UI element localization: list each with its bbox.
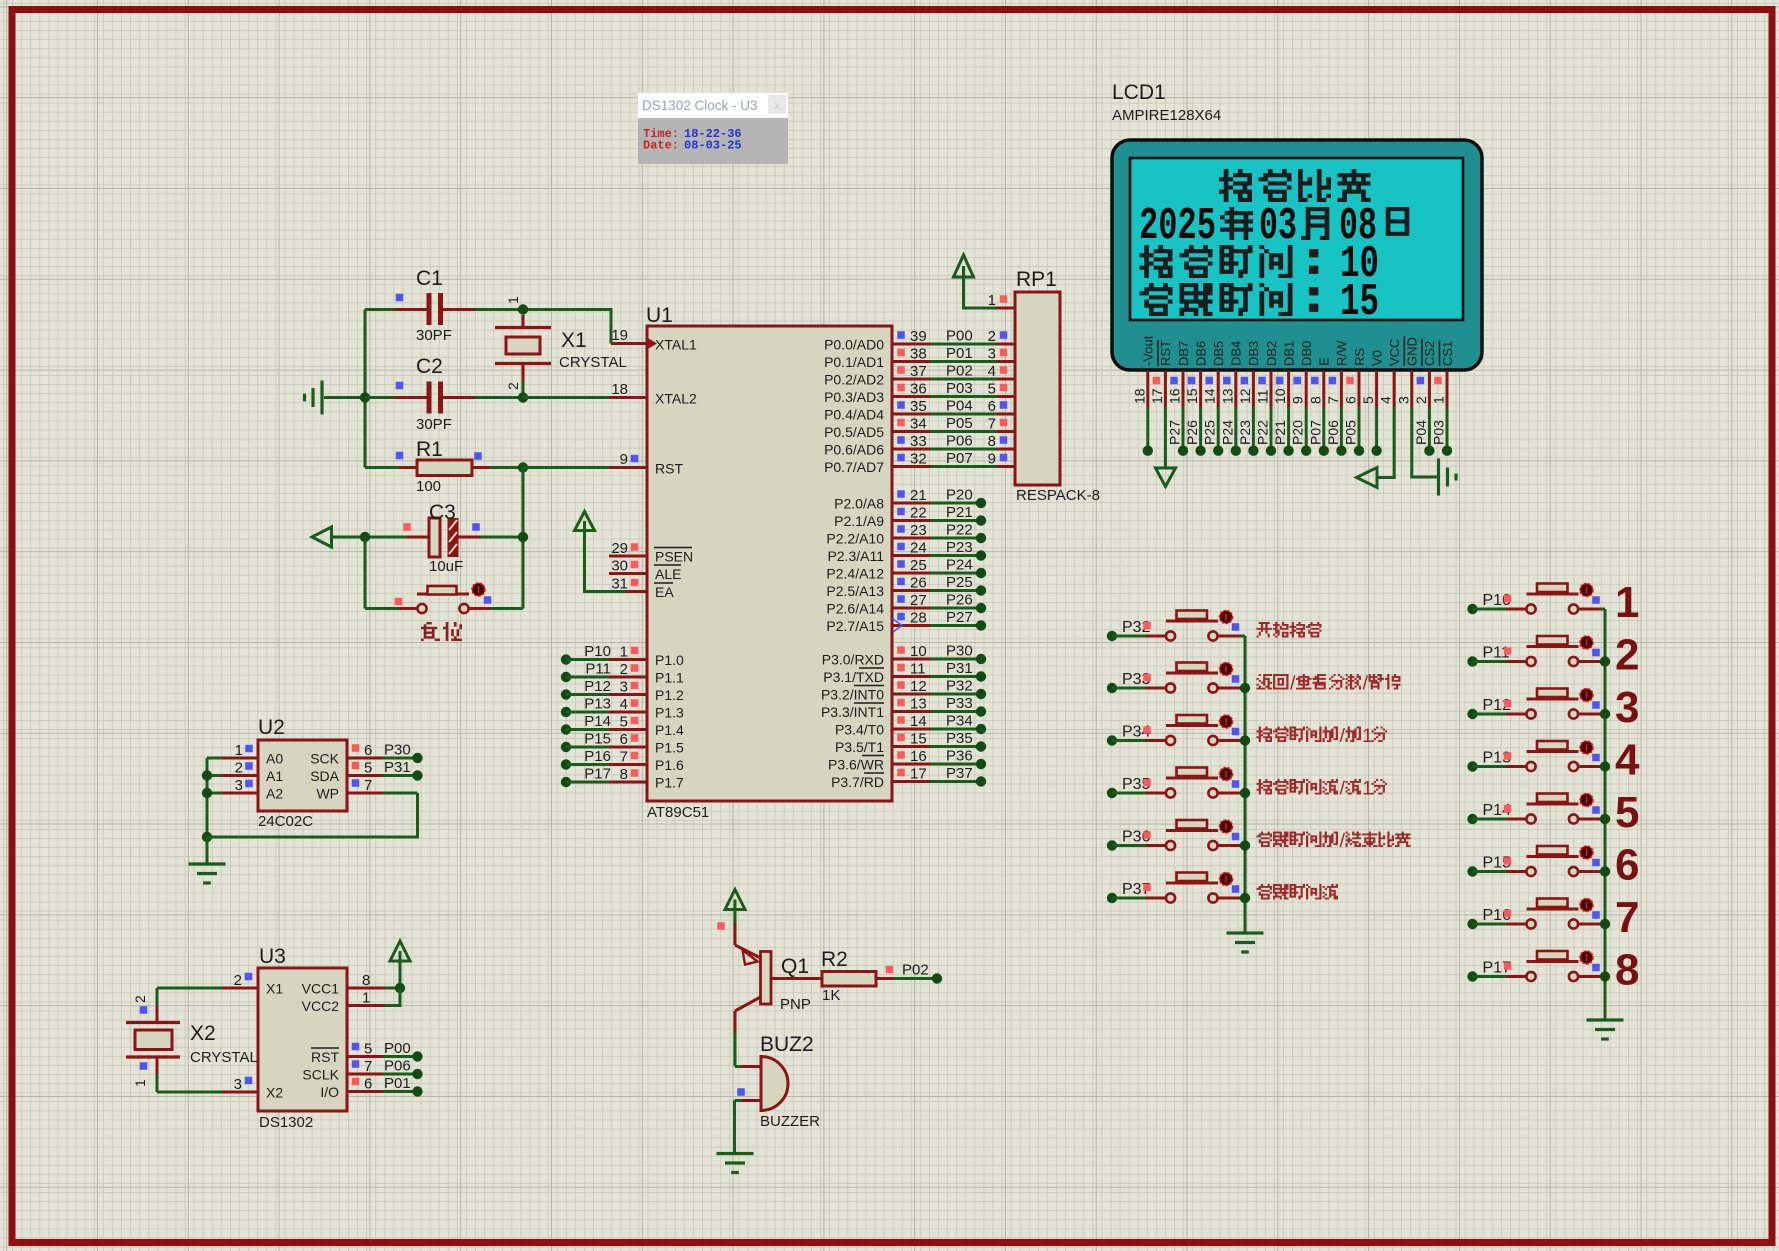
svg-text:P01: P01 — [946, 345, 973, 362]
svg-text:2: 2 — [505, 382, 521, 390]
svg-text:19: 19 — [611, 327, 628, 344]
svg-text:DB2: DB2 — [1264, 341, 1279, 366]
crystal X2 CRYSTAL — [126, 1022, 258, 1066]
svg-text:7: 7 — [1325, 396, 1341, 404]
svg-text:3: 3 — [234, 1076, 242, 1093]
svg-text:31: 31 — [611, 576, 628, 593]
U1 pin 32 P0.7/AD7, net P07, RP1 pin 9 — [824, 450, 1015, 475]
svg-text:24: 24 — [910, 540, 927, 557]
push button RESET (fu wei) — [395, 583, 523, 613]
svg-text:X2: X2 — [190, 1022, 216, 1045]
svg-text:34: 34 — [910, 416, 927, 433]
svg-text:P23: P23 — [1237, 420, 1253, 445]
svg-text:11: 11 — [1255, 389, 1271, 404]
U2 pin 1 A0 — [207, 742, 283, 767]
ground at LCD GND — [1439, 459, 1457, 496]
U1 pin 9 RST — [609, 451, 683, 477]
svg-text:P31: P31 — [946, 660, 973, 677]
svg-text:8: 8 — [1307, 396, 1323, 404]
transistor Q1 PNP — [735, 923, 811, 1032]
svg-text:P33: P33 — [946, 695, 973, 712]
svg-text:DB5: DB5 — [1211, 341, 1226, 366]
svg-text:18: 18 — [611, 381, 628, 398]
svg-text:1: 1 — [362, 990, 370, 1007]
LCD1 pin 13 DB4 — [1219, 341, 1243, 456]
svg-text:P22: P22 — [946, 522, 973, 539]
svg-text:2: 2 — [1615, 631, 1639, 680]
svg-text:RST: RST — [311, 1049, 339, 1065]
svg-text:1: 1 — [505, 296, 521, 304]
LCD1 pin 1 CS1 — [1431, 340, 1455, 456]
U1 pin 10 P3.0/RXD, net P30 — [822, 643, 986, 668]
svg-text:17: 17 — [910, 766, 927, 783]
label number 8 — [1615, 946, 1639, 995]
svg-text:7: 7 — [988, 416, 996, 433]
svg-text:VCC2: VCC2 — [302, 998, 340, 1014]
U3 pin 3 X2 wire from crystal — [132, 1057, 283, 1101]
U1 pin 14 P3.4/T0, net P34 — [835, 713, 986, 738]
wire U2 left rail to ground — [202, 758, 212, 864]
label number 3 — [1615, 683, 1639, 732]
push button P13 (contestant 4) — [1467, 741, 1605, 772]
svg-text:P20: P20 — [946, 487, 973, 504]
svg-text:P00: P00 — [384, 1040, 411, 1057]
U3 pin 2 X1 wire from crystal — [132, 972, 283, 1023]
U1 pin 13 P3.3/INT1, net P33 — [821, 695, 986, 720]
svg-text:CS2: CS2 — [1422, 341, 1437, 366]
svg-text:8: 8 — [1615, 946, 1639, 995]
svg-text:5: 5 — [988, 381, 996, 398]
U1 pin 2 P1.1, net P11 — [561, 661, 684, 686]
svg-text:P1.3: P1.3 — [655, 705, 684, 721]
LCD1 pin 5 V0 — [1360, 350, 1384, 456]
svg-text:26: 26 — [910, 575, 927, 592]
svg-text:BUZ2: BUZ2 — [760, 1033, 814, 1056]
U2 pin 3 A2 — [207, 777, 283, 802]
svg-text:8: 8 — [362, 972, 370, 989]
svg-text:P16: P16 — [584, 748, 611, 765]
power terminal arrow left of C3 — [312, 527, 370, 547]
svg-text:P32: P32 — [946, 678, 973, 695]
svg-text:U2: U2 — [258, 716, 285, 739]
svg-text:18: 18 — [1131, 388, 1147, 404]
push button P37 (答题时间减) — [1107, 873, 1245, 904]
svg-text:P24: P24 — [1219, 420, 1235, 445]
U2 pin 6 SCK, net P30 — [310, 742, 422, 767]
U1 pin 31 EA — [611, 576, 674, 601]
svg-text:6: 6 — [364, 1076, 372, 1093]
svg-text:ALE: ALE — [655, 566, 681, 582]
svg-text:P31: P31 — [384, 759, 411, 776]
svg-text:16: 16 — [1167, 388, 1183, 404]
svg-text:P05: P05 — [1343, 420, 1359, 445]
svg-text:x: x — [774, 100, 780, 112]
svg-text:WP: WP — [316, 786, 339, 802]
svg-text:30PF: 30PF — [416, 416, 452, 433]
svg-text:RST: RST — [1158, 340, 1173, 366]
svg-text:9: 9 — [1290, 396, 1306, 404]
svg-text:P0.5/AD5: P0.5/AD5 — [824, 424, 884, 440]
power terminal arrow at EA — [575, 512, 627, 592]
svg-text:P10: P10 — [584, 643, 611, 660]
svg-text:P06: P06 — [946, 433, 973, 450]
svg-text:VCC1: VCC1 — [302, 981, 340, 997]
U1 pin 3 P1.2, net P12 — [561, 678, 684, 703]
svg-text:XTAL1: XTAL1 — [655, 337, 697, 353]
label 返回/查看分数/暂停 — [1257, 673, 1401, 695]
svg-text:P13: P13 — [584, 696, 611, 713]
U1 pin 1 P1.0, net P10 — [561, 643, 684, 668]
U1 pin 23 P2.2/A10, net P22 — [826, 522, 986, 547]
junction node X1 pin1 — [518, 304, 528, 314]
svg-text:2: 2 — [234, 972, 242, 989]
push button P11 (contestant 2) — [1467, 636, 1605, 667]
svg-text:P2.7/A15: P2.7/A15 — [826, 618, 884, 634]
svg-text:P04: P04 — [946, 398, 973, 415]
svg-text:V0: V0 — [1369, 350, 1384, 366]
svg-text:P37: P37 — [946, 765, 973, 782]
LCD1 pin 8 E — [1307, 357, 1331, 456]
svg-text:4: 4 — [988, 363, 996, 380]
svg-text:P0.7/AD7: P0.7/AD7 — [824, 459, 884, 475]
U1 pin 5 P1.4, net P14 — [561, 713, 684, 738]
svg-text:PSEN: PSEN — [655, 549, 693, 565]
LCD text line2 2025-03-08 — [1139, 201, 1409, 252]
svg-text:P1.1: P1.1 — [655, 670, 684, 686]
crystal X1 CRYSTAL — [495, 296, 627, 403]
svg-text:P0.2/AD2: P0.2/AD2 — [824, 372, 884, 388]
wire middle buttons rail — [1240, 636, 1250, 933]
svg-text:P06: P06 — [384, 1058, 411, 1075]
svg-text:Q1: Q1 — [781, 955, 809, 978]
svg-text:AMPIRE128X64: AMPIRE128X64 — [1112, 107, 1221, 124]
svg-text:C2: C2 — [416, 355, 443, 378]
U1 pin 4 P1.3, net P13 — [561, 696, 684, 721]
svg-text:P1.0: P1.0 — [655, 652, 684, 668]
ground left of C2 — [305, 381, 323, 415]
svg-text:U1: U1 — [646, 304, 673, 327]
svg-text:/: / — [1340, 830, 1346, 852]
svg-text:12: 12 — [910, 678, 927, 695]
svg-text:R1: R1 — [416, 438, 443, 461]
LCD1 pin 14 DB5 — [1202, 341, 1226, 456]
svg-text:P2.2/A10: P2.2/A10 — [826, 531, 884, 547]
svg-text:DS1302 Clock - U3: DS1302 Clock - U3 — [642, 98, 758, 113]
svg-text:DS1302: DS1302 — [259, 1114, 313, 1131]
svg-text:RESPACK-8: RESPACK-8 — [1016, 487, 1100, 504]
svg-text:EA: EA — [655, 584, 674, 600]
svg-text:P02: P02 — [946, 363, 973, 380]
label number 7 — [1615, 893, 1639, 942]
power terminal arrow above Q1 — [717, 890, 745, 930]
svg-text:16: 16 — [910, 748, 927, 765]
svg-text:Date:: Date: — [643, 139, 679, 153]
svg-text:13: 13 — [910, 696, 927, 713]
svg-text:P0.4/AD4: P0.4/AD4 — [824, 407, 884, 423]
svg-text:C3: C3 — [429, 501, 456, 524]
LCD1 pin 9 DB0 — [1290, 341, 1314, 456]
svg-text:2: 2 — [1413, 396, 1429, 404]
svg-text:P07: P07 — [1307, 420, 1323, 445]
svg-text:P36: P36 — [946, 748, 973, 765]
svg-text:P02: P02 — [902, 962, 929, 979]
svg-text:P20: P20 — [1290, 420, 1306, 445]
label 答题时间减 — [1257, 884, 1338, 900]
LCD text line1 qiang-da-bi-sai — [1219, 169, 1370, 202]
svg-text:2: 2 — [235, 760, 243, 777]
svg-text:8: 8 — [988, 433, 996, 450]
U1 pin 29 PSEN — [609, 540, 693, 565]
svg-text:1: 1 — [1615, 578, 1639, 627]
RP1 pin 1 and power terminal — [954, 255, 1016, 309]
svg-text:P1.7: P1.7 — [655, 775, 684, 791]
svg-text:3: 3 — [620, 679, 628, 696]
U1 pin 35 P0.4/AD4, net P04, RP1 pin 6 — [824, 398, 1015, 423]
svg-text:6: 6 — [620, 731, 628, 748]
svg-text:DB1: DB1 — [1281, 341, 1296, 366]
U1 pin 30 ALE — [609, 558, 681, 583]
svg-text:37: 37 — [910, 363, 927, 380]
svg-text:2: 2 — [620, 661, 628, 678]
LCD text line3 qiangda time 10 — [1140, 239, 1380, 290]
svg-text:2025: 2025 — [1139, 201, 1216, 252]
svg-text:21: 21 — [910, 487, 927, 504]
wire right buttons rail — [1600, 609, 1610, 1020]
svg-text:P22: P22 — [1255, 420, 1271, 445]
svg-text:RS: RS — [1352, 348, 1367, 366]
svg-text:4: 4 — [1378, 396, 1394, 404]
svg-text:DB4: DB4 — [1229, 341, 1244, 366]
label 抢答时间加/加1分 — [1257, 725, 1388, 747]
svg-text:/: / — [1290, 673, 1296, 695]
svg-text:38: 38 — [910, 346, 927, 363]
svg-text:C1: C1 — [416, 267, 443, 290]
svg-text:11: 11 — [910, 661, 926, 678]
svg-text:P27: P27 — [1167, 420, 1183, 445]
svg-text:1: 1 — [235, 742, 243, 759]
svg-text:P1.5: P1.5 — [655, 740, 684, 756]
label number 6 — [1615, 841, 1639, 890]
svg-text:3: 3 — [988, 346, 996, 363]
svg-text:P05: P05 — [946, 415, 973, 432]
push button P34 (抢答时间加/加1分) — [1107, 715, 1245, 746]
svg-text:DB0: DB0 — [1299, 341, 1314, 366]
svg-text:2: 2 — [132, 995, 148, 1003]
U1 pin 28 P2.7/A15, net P27 — [826, 609, 986, 634]
svg-text:15: 15 — [1184, 388, 1200, 404]
svg-text:P06: P06 — [1325, 420, 1341, 445]
U2 pin 7 WP — [316, 777, 417, 802]
svg-text:CRYSTAL: CRYSTAL — [190, 1049, 258, 1066]
LCD1 AMPIRE128X64 labels — [1112, 81, 1221, 124]
svg-text:P2.0/A8: P2.0/A8 — [834, 496, 884, 512]
svg-text:1: 1 — [1362, 725, 1373, 747]
LCD1 pin 16 DB7 — [1167, 341, 1191, 456]
U1 pin 21 P2.0/A8, net P20 — [834, 487, 986, 512]
svg-text:RST: RST — [655, 461, 683, 477]
LCD1 pin 18 -Vout — [1131, 335, 1155, 456]
svg-text:PNP: PNP — [780, 996, 811, 1013]
svg-text:08-03-25: 08-03-25 — [684, 139, 742, 153]
svg-text:SDA: SDA — [310, 768, 339, 784]
svg-text:/: / — [1363, 673, 1369, 695]
resistor R1 100 — [365, 438, 523, 495]
svg-text:P1.6: P1.6 — [655, 757, 684, 773]
svg-text:P3.7/RD: P3.7/RD — [831, 774, 884, 790]
svg-text:P0.6/AD6: P0.6/AD6 — [824, 442, 884, 458]
svg-text:100: 100 — [416, 478, 441, 495]
U1 pin 22 P2.1/A9, net P21 — [834, 504, 986, 529]
svg-text:P24: P24 — [946, 557, 973, 574]
LCD1 module body — [1112, 140, 1482, 370]
svg-text:4: 4 — [1615, 736, 1640, 785]
svg-text:DB7: DB7 — [1176, 341, 1191, 366]
svg-text:P17: P17 — [584, 766, 611, 783]
svg-text:A0: A0 — [266, 751, 283, 767]
svg-text:7: 7 — [364, 777, 372, 794]
svg-text:5: 5 — [364, 1041, 372, 1058]
svg-text:CS1: CS1 — [1440, 341, 1455, 366]
push button P36 (答题时间加/结束比赛) — [1107, 820, 1245, 851]
svg-text:5: 5 — [364, 760, 372, 777]
U3 pin 1 VCC2 — [302, 988, 400, 1014]
svg-text:P0.0/AD0: P0.0/AD0 — [824, 337, 884, 353]
svg-text:/: / — [1340, 725, 1346, 747]
svg-text:28: 28 — [910, 610, 927, 627]
svg-text:1: 1 — [132, 1079, 148, 1087]
svg-text:7: 7 — [1615, 893, 1639, 942]
U1 pin 34 P0.5/AD5, net P05, RP1 pin 7 — [824, 415, 1015, 440]
svg-text:CRYSTAL: CRYSTAL — [559, 354, 627, 371]
svg-text:SCLK: SCLK — [302, 1067, 339, 1083]
svg-text:35: 35 — [910, 398, 927, 415]
svg-text:1K: 1K — [822, 987, 840, 1004]
ground below middle buttons — [1227, 933, 1264, 952]
buzzer BUZ2 BUZZER — [735, 1033, 821, 1130]
svg-text:P3.0/RXD: P3.0/RXD — [822, 652, 884, 668]
svg-text:9: 9 — [988, 451, 996, 468]
svg-text:25: 25 — [910, 557, 927, 574]
svg-text:P26: P26 — [946, 592, 973, 609]
svg-text:P25: P25 — [1202, 420, 1218, 445]
svg-text:P00: P00 — [946, 328, 973, 345]
wire RST rail down — [522, 468, 525, 609]
LCD1 pin 15 DB6 — [1184, 341, 1208, 456]
svg-text:P2.1/A9: P2.1/A9 — [834, 513, 884, 529]
svg-text:P3.6/WR: P3.6/WR — [828, 757, 884, 773]
ground below buzzer — [717, 1154, 754, 1173]
push button P14 (contestant 5) — [1467, 794, 1605, 825]
svg-text:P25: P25 — [946, 574, 973, 591]
LCD1 pin 10 DB1 — [1272, 341, 1296, 456]
wire C1/X1 node to XTAL1 — [523, 310, 611, 344]
svg-text:P21: P21 — [1272, 420, 1288, 445]
LCD1 pin 6 RS — [1343, 348, 1367, 456]
svg-text:13: 13 — [1219, 388, 1235, 404]
rtc U3 DS1302 body — [258, 945, 347, 1131]
svg-text:SCK: SCK — [310, 751, 339, 767]
svg-text:36: 36 — [910, 381, 927, 398]
capacitor C2 30PF — [324, 355, 523, 433]
svg-text:7: 7 — [620, 749, 628, 766]
U3 pin 8 VCC1 with power terminal — [302, 941, 410, 997]
svg-text:14: 14 — [1202, 388, 1218, 404]
svg-text:8: 8 — [620, 766, 628, 783]
svg-text:P14: P14 — [584, 713, 611, 730]
U1 pin 38 P0.1/AD1, net P01, RP1 pin 3 — [824, 345, 1015, 370]
svg-text:P3.4/T0: P3.4/T0 — [835, 722, 884, 738]
svg-text:39: 39 — [910, 328, 927, 345]
svg-text:3: 3 — [235, 777, 243, 794]
svg-text:U3: U3 — [259, 945, 286, 968]
U1 pin 6 P1.5, net P15 — [561, 731, 684, 756]
svg-text:DB6: DB6 — [1193, 341, 1208, 366]
svg-text:A2: A2 — [266, 786, 283, 802]
svg-text:P01: P01 — [384, 1075, 411, 1092]
U3 pin 6 I/O, net P01 — [320, 1075, 422, 1100]
label number 5 — [1615, 788, 1639, 837]
svg-text:A1: A1 — [266, 768, 283, 784]
push button P17 (contestant 8) — [1467, 951, 1605, 982]
svg-text:P27: P27 — [946, 609, 973, 626]
capacitor C1 30PF — [365, 267, 523, 344]
U1 pin 39 P0.0/AD0, net P00, RP1 pin 2 — [824, 328, 1015, 353]
push button P35 (抢答时间减/减1分) — [1107, 768, 1245, 799]
U1 pin 7 P1.6, net P16 — [561, 748, 684, 773]
svg-text:P1.4: P1.4 — [655, 722, 684, 738]
svg-text:03: 03 — [1259, 201, 1297, 252]
power terminal down-arrow at LCD RST — [1156, 468, 1176, 487]
U1 pin 24 P2.3/A11, net P23 — [827, 539, 986, 564]
svg-text:5: 5 — [1615, 788, 1639, 837]
wire buzzer to ground — [733, 1101, 736, 1154]
svg-text:XTAL2: XTAL2 — [655, 391, 697, 407]
svg-text:2: 2 — [988, 328, 996, 345]
svg-text:30: 30 — [611, 558, 628, 575]
U1 pin 16 P3.6/WR, net P36 — [828, 748, 986, 773]
svg-text:15: 15 — [910, 731, 927, 748]
svg-text:P2.3/A11: P2.3/A11 — [827, 548, 884, 564]
svg-text:BUZZER: BUZZER — [760, 1113, 820, 1130]
push button P10 (contestant 1) — [1467, 584, 1605, 615]
svg-text:3: 3 — [1395, 396, 1411, 404]
svg-text:10: 10 — [910, 643, 927, 660]
U1 pin 17 P3.7/RD, net P37 — [831, 765, 986, 790]
svg-text:GND: GND — [1405, 337, 1420, 366]
svg-text:X2: X2 — [266, 1085, 283, 1101]
U1 pin 11 P3.1/TXD, net P31 — [823, 660, 986, 685]
svg-text:1: 1 — [620, 644, 628, 661]
svg-text:17: 17 — [1149, 388, 1165, 404]
svg-text:29: 29 — [611, 540, 628, 557]
U3 pin 7 SCLK, net P06 — [302, 1058, 422, 1083]
ground below right buttons — [1587, 1020, 1624, 1039]
U1 pin 12 P3.2/INT0, net P32 — [821, 678, 986, 703]
svg-text:5: 5 — [1360, 396, 1376, 404]
svg-text:P3.1/TXD: P3.1/TXD — [823, 669, 884, 685]
svg-text:P0.3/AD3: P0.3/AD3 — [824, 389, 884, 405]
svg-text:P03: P03 — [946, 380, 973, 397]
svg-text:22: 22 — [910, 505, 927, 522]
wire reset button rail — [365, 537, 400, 609]
svg-text:AT89C51: AT89C51 — [647, 804, 709, 821]
svg-text:P15: P15 — [584, 731, 611, 748]
U2 pin 2 A1 — [207, 760, 283, 785]
label 抢答时间减/减1分 — [1257, 778, 1388, 800]
U3 pin 5 RST, net P00 — [311, 1040, 423, 1065]
label 答题时间加/结束比赛 — [1257, 830, 1411, 852]
svg-text:RP1: RP1 — [1016, 268, 1057, 291]
